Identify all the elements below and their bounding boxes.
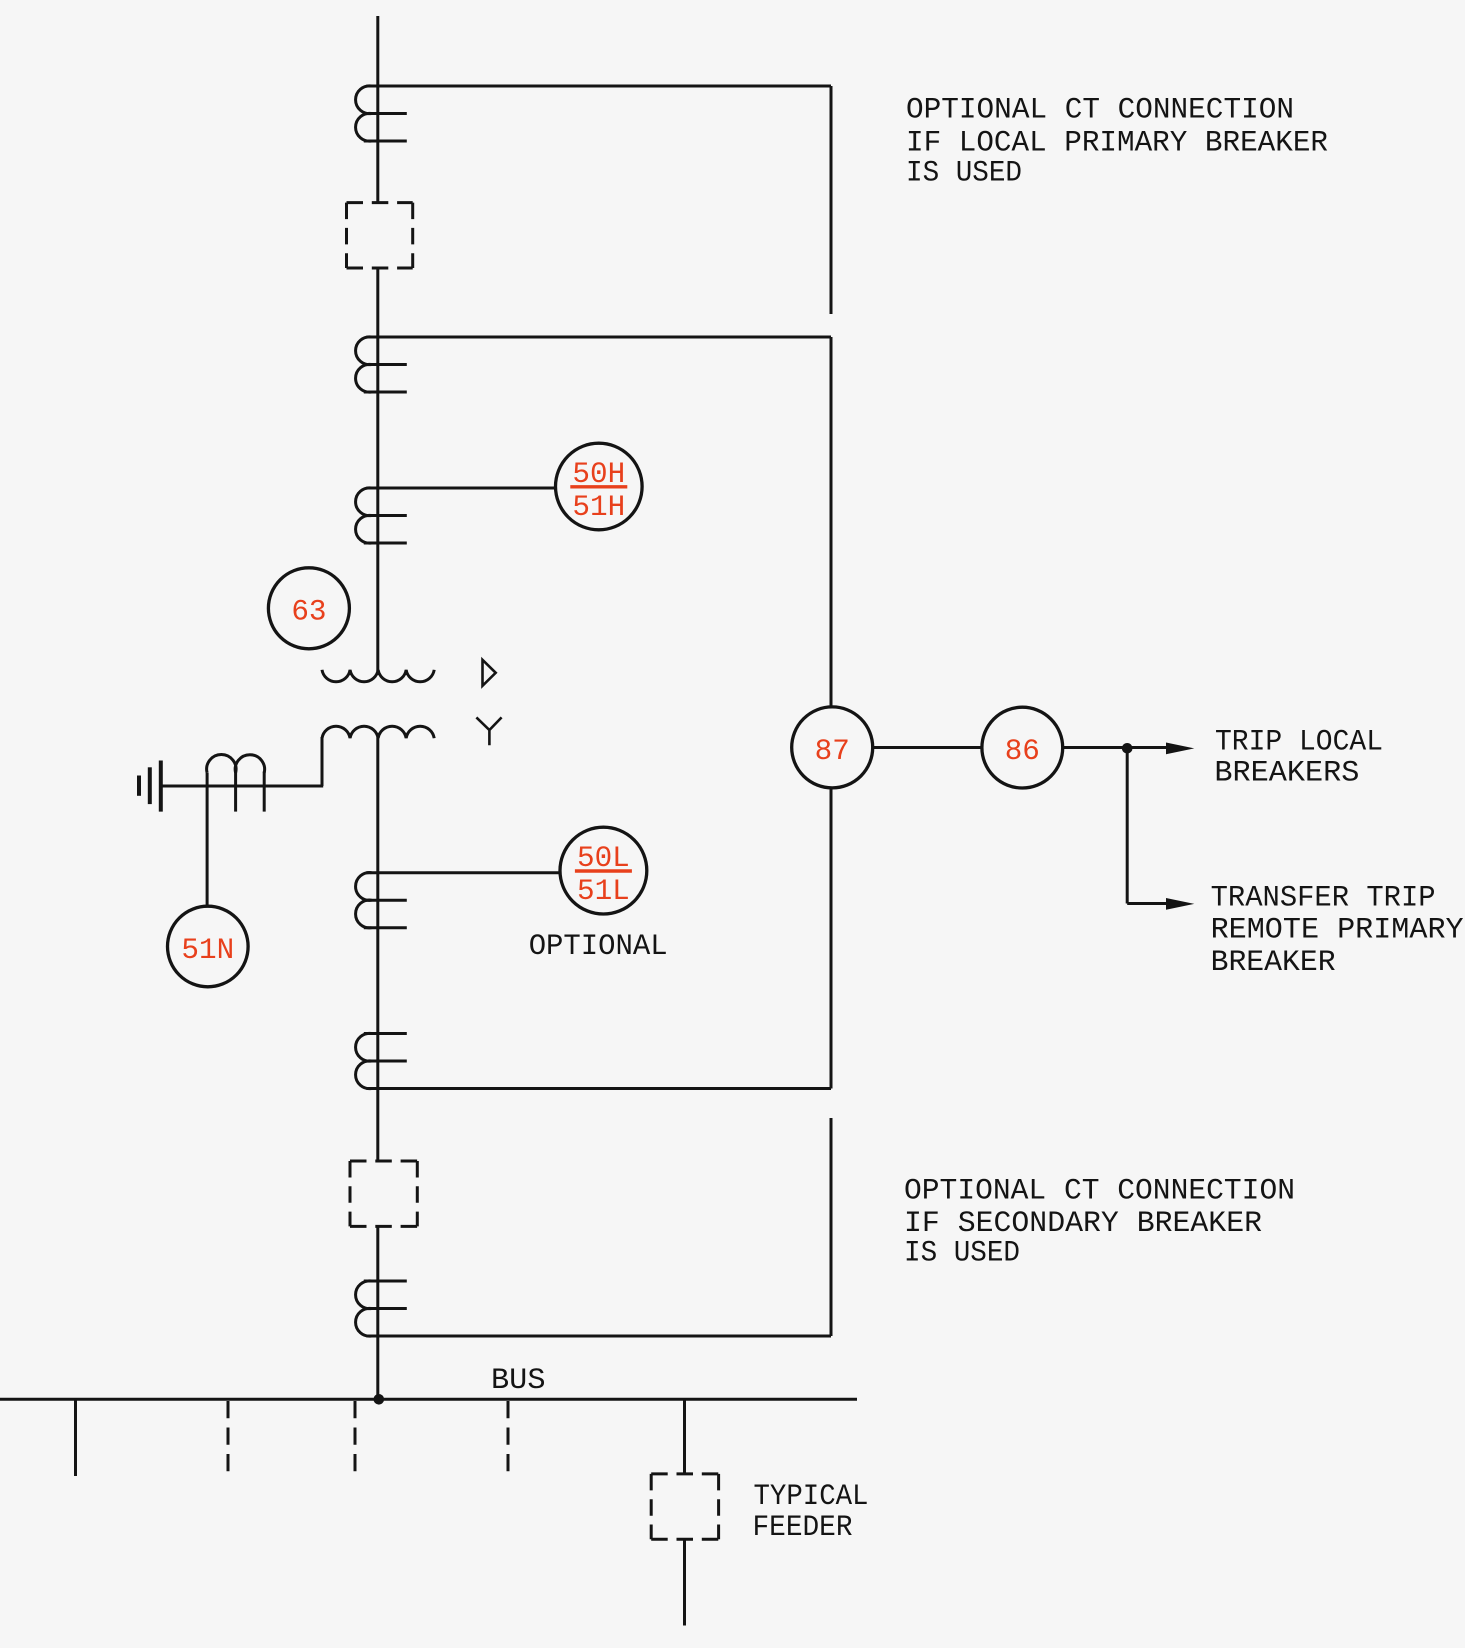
wire: to transfer trip arrow [1127, 902, 1168, 905]
current transformer CT6 (optional, secondary breaker) [356, 1281, 407, 1336]
wire: optional CT connection drop (open ended, lower) [830, 1118, 833, 1336]
svg-text:BUS: BUS [491, 1364, 546, 1397]
relay device 87 [792, 707, 873, 788]
wire from CT CT6 (optional, secondary breaker) secondary [367, 1335, 832, 1338]
current transformer CT3 (50H/51H phase relays) [356, 488, 407, 543]
arrow: transfer trip [1166, 898, 1194, 910]
svg-text:51N: 51N [181, 934, 234, 967]
transformer T1 secondary winding (wye) [322, 726, 434, 738]
wire from CT CT5 (differential low side) secondary [367, 1087, 832, 1090]
svg-text:IF LOCAL PRIMARY BREAKER: IF LOCAL PRIMARY BREAKER [906, 127, 1328, 160]
svg-text:TYPICAL: TYPICAL [754, 1480, 869, 1513]
svg-text:IS USED: IS USED [906, 157, 1022, 190]
feeder stub 3 (dashed, future) [354, 1401, 357, 1474]
wire: 87 to 86 [873, 746, 982, 749]
circuit breaker (dashed square) 52 primary [347, 203, 413, 268]
wire from CT CT1 (optional, local primary breaker) secondary [367, 85, 832, 88]
svg-text:TRANSFER TRIP: TRANSFER TRIP [1211, 882, 1436, 915]
delta symbol [483, 660, 496, 686]
current transformer CT2 (differential high side) [356, 337, 407, 392]
svg-text:TRIP LOCAL: TRIP LOCAL [1215, 725, 1383, 758]
svg-text:OPTIONAL CT CONNECTION: OPTIONAL CT CONNECTION [906, 94, 1294, 127]
svg-text:86: 86 [1005, 735, 1040, 768]
circuit breaker (dashed square) 52 typical feeder [651, 1474, 718, 1539]
wire: primary line between breaker and transformer [376, 268, 379, 671]
svg-text:IF SECONDARY BREAKER: IF SECONDARY BREAKER [904, 1207, 1262, 1240]
feeder stub 1 (solid) [74, 1399, 77, 1476]
feeder stub 2 (dashed, future) [227, 1401, 230, 1474]
wire: primary incoming line (top segment) [376, 16, 379, 203]
current transformer CT1 (optional, local primary breaker) [356, 86, 407, 141]
svg-text:BREAKER: BREAKER [1211, 946, 1336, 979]
relay device 50L/51L [560, 827, 647, 914]
current transformer CT4 (50L/51L phase relays) [356, 873, 407, 928]
relay device 50H/51H [556, 443, 643, 530]
wire from CT7 to 51N relay [206, 773, 209, 907]
svg-text:FEEDER: FEEDER [753, 1511, 853, 1544]
junction node (trip tap) [1122, 743, 1133, 754]
wire: wye neutral lead down from winding [321, 737, 324, 786]
svg-text:87: 87 [815, 735, 850, 768]
wire: differential CT loop right side (to 87) [830, 337, 833, 712]
feeder stub 4 (dashed, future) [507, 1401, 510, 1474]
wire: optional CT connection drop (open ended, upper) [830, 86, 833, 314]
wire: neutral to ground [161, 785, 323, 788]
wire: differential CT loop right side (from 87 down) [830, 783, 833, 1089]
wire from CT CT2 (differential high side) secondary [367, 336, 832, 339]
current transformer CT5 (differential low side) [356, 1033, 407, 1088]
current transformer CT7 (neutral, 51N) [207, 754, 265, 811]
wire: down to transfer trip [1126, 748, 1129, 904]
wire: station BUS [0, 1398, 857, 1401]
wire: typical feeder below breaker [683, 1539, 686, 1625]
svg-text:OPTIONAL: OPTIONAL [529, 930, 668, 963]
wye symbol [476, 717, 501, 745]
svg-text:51L: 51L [577, 875, 630, 908]
arrow: trip local breakers [1166, 743, 1194, 755]
svg-text:51H: 51H [572, 491, 625, 524]
transformer T1 primary winding (delta) [322, 670, 434, 682]
svg-text:63: 63 [291, 596, 326, 629]
bus node: junction dot [374, 1394, 385, 1405]
wire: 86 to trip arrows [1063, 746, 1168, 749]
wire from CT CT3 (50H/51H phase relays) secondary [367, 487, 557, 490]
wire: secondary line from breaker to bus [376, 1226, 379, 1399]
svg-text:BREAKERS: BREAKERS [1214, 757, 1359, 790]
wire: secondary line below transformer [376, 738, 379, 1162]
wire: typical feeder drop [683, 1399, 686, 1474]
relay device 63 [268, 568, 349, 649]
circuit breaker (dashed square) 52 secondary [350, 1161, 417, 1226]
svg-text:REMOTE PRIMARY: REMOTE PRIMARY [1211, 914, 1464, 947]
relay device 86 [982, 707, 1063, 788]
svg-text:OPTIONAL CT CONNECTION: OPTIONAL CT CONNECTION [904, 1175, 1295, 1208]
wire from CT CT4 (50L/51L phase relays) secondary [367, 871, 561, 874]
ground symbol [139, 761, 161, 812]
relay device 51N [168, 906, 249, 987]
svg-text:IS USED: IS USED [904, 1237, 1020, 1270]
